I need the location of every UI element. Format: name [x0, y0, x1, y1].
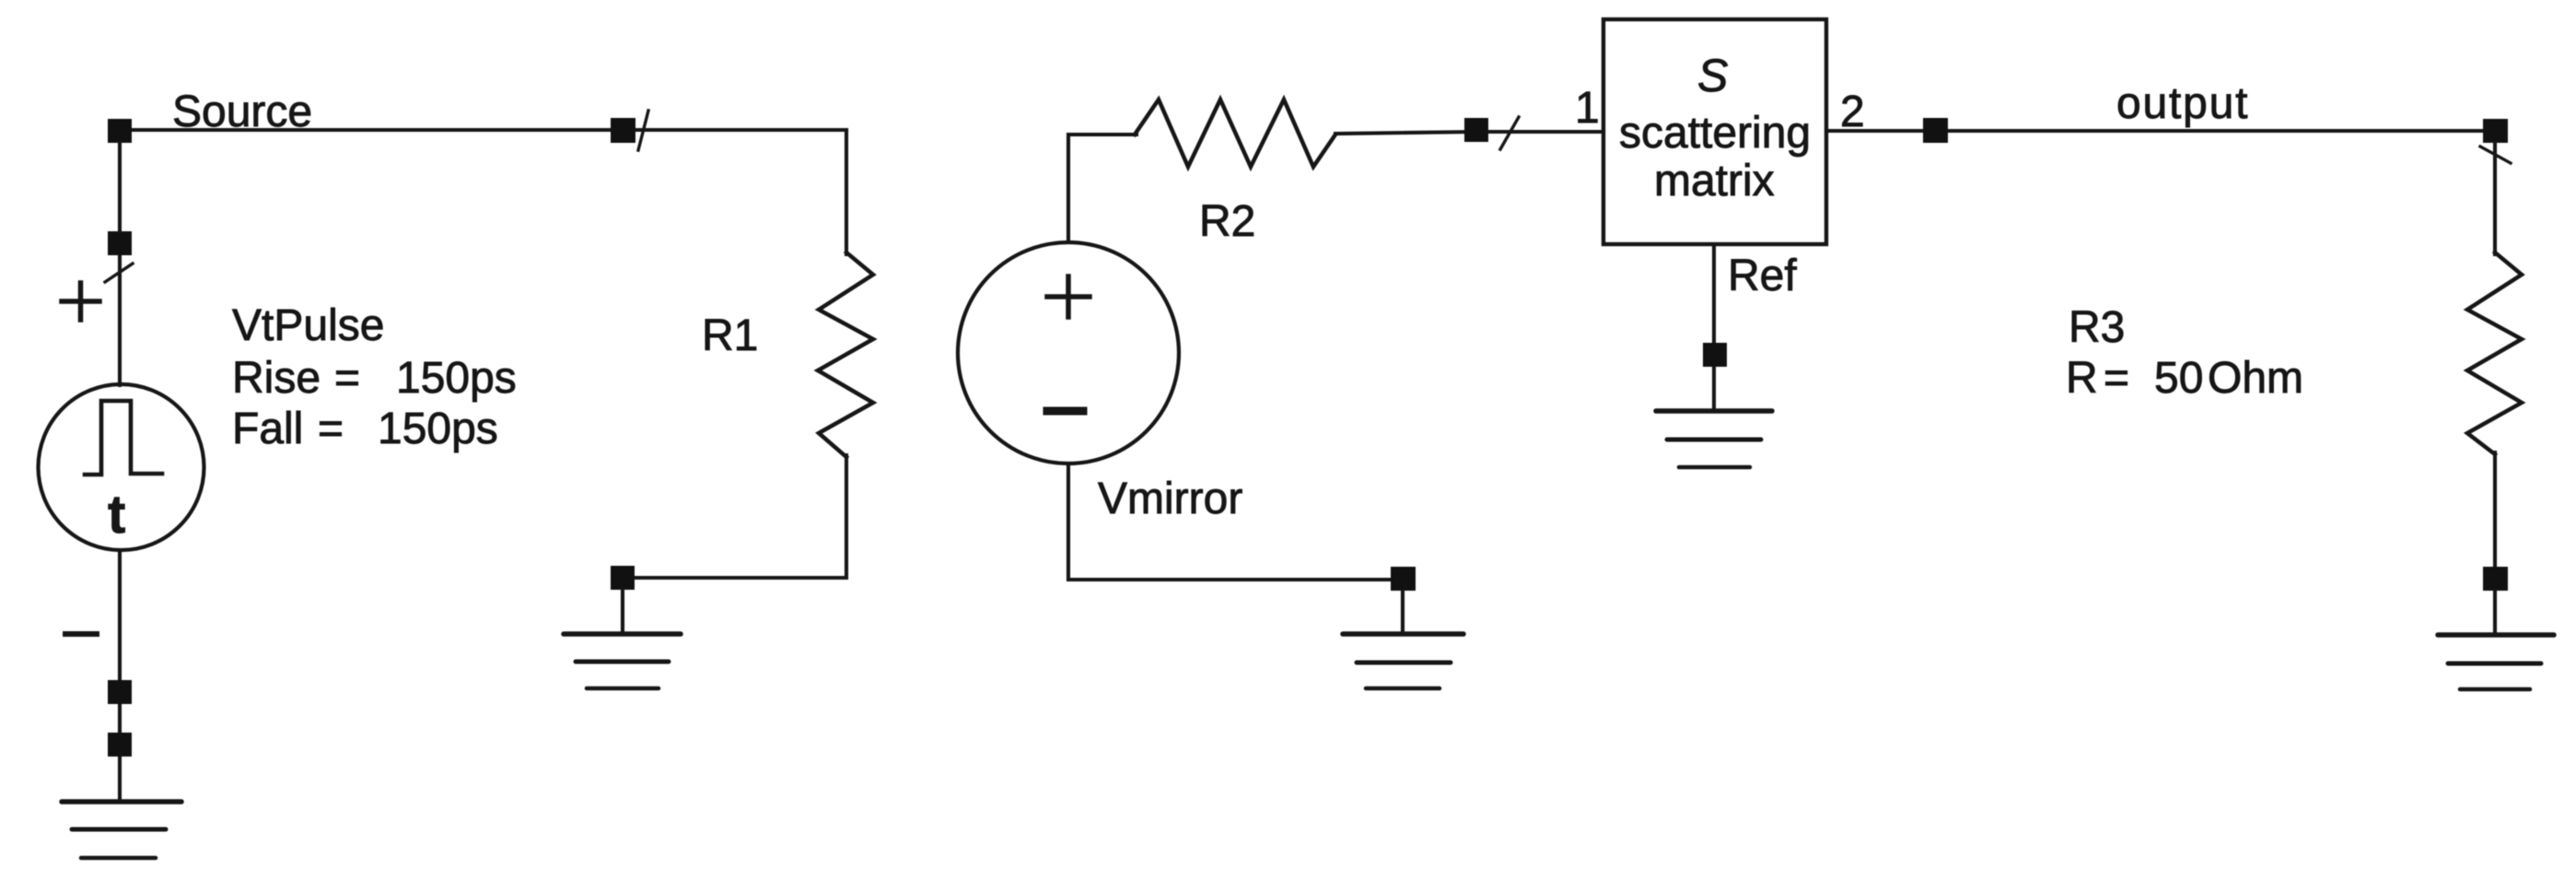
wire R1 bottom lead [623, 455, 846, 578]
wire R1 ground stub [621, 590, 624, 632]
node output corner [2483, 119, 2508, 143]
svg-text:1: 1 [1575, 84, 1600, 133]
wire VtPulse positive lead [118, 142, 122, 385]
wire R3 ground stub [2493, 591, 2497, 633]
node R1 ground junction [611, 566, 635, 590]
node Source junction [108, 119, 132, 143]
label − polarity of VtPulse [65, 631, 97, 637]
node Vmirror ground junction [1391, 567, 1416, 591]
ground below Vmirror [1343, 634, 1463, 688]
resistor R3 [2467, 252, 2522, 454]
two-port S1 scattering matrix box [1603, 19, 1826, 244]
svg-text:Ref: Ref [1728, 252, 1797, 300]
wire Ref lead [1712, 244, 1716, 409]
voltage source Vmirror SRC2 (circle) [958, 242, 1179, 464]
svg-text:Source: Source [172, 88, 312, 136]
svg-text:R3: R3 [2069, 303, 2125, 352]
pulse waveform glyph inside SRC1 [85, 401, 162, 475]
node between R2 and port 1 [1464, 118, 1488, 142]
node output tap [1923, 118, 1948, 143]
wire Vmirror ground stub [1401, 591, 1405, 632]
svg-text:scattering: scattering [1619, 109, 1811, 158]
ground below R1 [564, 634, 681, 688]
resistor R2 [1135, 100, 1335, 167]
node Ref ground junction [1703, 343, 1727, 367]
svg-text:R2: R2 [1199, 197, 1255, 246]
wire R3 bottom lead [2493, 452, 2497, 568]
svg-text:matrix: matrix [1654, 157, 1775, 205]
label − polarity of Vmirror [1047, 407, 1083, 416]
wire VtPulse negative lead [118, 550, 122, 800]
svg-text:S: S [1697, 50, 1728, 101]
node on negative lead (lower) [108, 733, 132, 757]
voltage source VtPulse SRC1 (circle) [39, 384, 204, 550]
node on Source rail (tap) [611, 118, 635, 143]
resistor R1 [818, 252, 873, 457]
wire port 2 to output rail [1826, 129, 2495, 133]
node VtPulse plus terminal [108, 231, 132, 255]
svg-text:Fall=150ps: Fall=150ps [232, 405, 498, 453]
svg-text:R1: R1 [702, 311, 758, 360]
wire tick on R3 lead [2480, 147, 2511, 163]
svg-text:output: output [2116, 79, 2249, 128]
svg-text:VtPulse: VtPulse [232, 301, 384, 350]
wire R1 top lead [845, 130, 848, 254]
svg-text:R=50Ohm: R=50Ohm [2066, 354, 2303, 403]
label + polarity of Vmirror [1047, 276, 1090, 317]
ground below Ref [1656, 411, 1772, 467]
svg-text:Rise=150ps: Rise=150ps [232, 354, 517, 403]
wire Vmirror negative lead [1068, 464, 1392, 580]
wire tick on VtPulse lead [105, 264, 133, 282]
node on negative lead (upper) [108, 680, 132, 704]
label + polarity of VtPulse [62, 283, 99, 320]
wire Vmirror positive lead up to R2 [1068, 135, 1136, 242]
svg-text:Vmirror: Vmirror [1098, 475, 1242, 523]
ground below R3 [2438, 635, 2554, 689]
wire R3 top lead [2493, 143, 2497, 254]
wire Source rail (node Source to R1 corner) [120, 128, 846, 132]
wire tick before port 1 [1500, 117, 1519, 149]
node R3 ground junction [2483, 567, 2508, 591]
svg-text:t: t [108, 485, 125, 545]
wire tick on Source rail [638, 111, 648, 150]
ground below VtPulse [62, 802, 181, 858]
wire R2 to port 1 of S1 [1335, 132, 1603, 134]
